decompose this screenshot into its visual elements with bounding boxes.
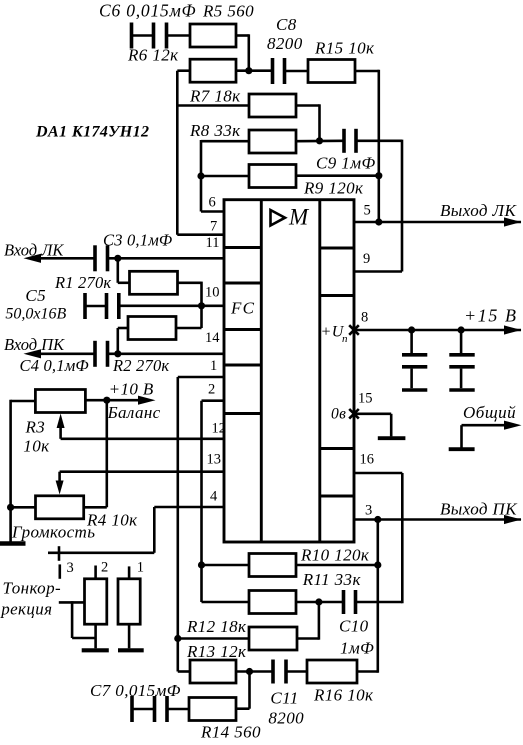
wire (178, 281, 202, 284)
wire switch arm (59, 601, 85, 604)
junction (246, 668, 253, 675)
capacitor C8 (271, 58, 275, 84)
op-amp U1 right cell divider (320, 247, 354, 250)
svg-text:R11 33к: R11 33к (302, 570, 362, 589)
arrow Вход ЛК (24, 254, 42, 263)
svg-text:n: n (342, 333, 348, 345)
svg-text:9: 9 (363, 251, 370, 267)
svg-text:11: 11 (206, 235, 220, 251)
wire (248, 672, 251, 709)
wire (132, 34, 153, 37)
junction (375, 172, 382, 179)
wire R3 right (85, 399, 106, 402)
wire (121, 304, 202, 307)
ground bar (118, 648, 144, 652)
wire pin16 to IC (354, 472, 402, 475)
junction (114, 255, 121, 262)
resistor R12 (249, 627, 297, 650)
wire (357, 601, 402, 604)
svg-text:8200: 8200 (267, 34, 303, 53)
resistor tone network vertical 1 (118, 579, 140, 624)
potentiometer R4 (36, 496, 84, 519)
svg-text:R1 270к: R1 270к (54, 273, 111, 292)
svg-text:6: 6 (209, 195, 216, 211)
capacitor C11 (271, 660, 275, 684)
svg-text:R14 560: R14 560 (200, 723, 261, 742)
capacitor C1 bottom terminal bar (402, 388, 427, 392)
arrow Вход ПК (24, 349, 42, 358)
wire (153, 507, 156, 553)
wire pin1 net vertical (177, 377, 180, 672)
svg-text:Выход ЛК: Выход ЛК (440, 201, 517, 220)
junction (374, 516, 381, 523)
junction (408, 326, 415, 333)
svg-text:FC: FC (230, 299, 255, 318)
op-amp U1 left cell divider (224, 412, 261, 415)
svg-text:2: 2 (208, 382, 215, 398)
arrow Баланс +10В (107, 399, 140, 402)
capacitor C10 (342, 590, 346, 614)
wire (168, 34, 190, 37)
wire R13 left (178, 670, 190, 673)
svg-text:С5: С5 (25, 286, 46, 305)
wire (117, 328, 120, 354)
capacitor C9 (342, 129, 346, 153)
wire pin13 from R4 wiper (60, 470, 225, 473)
switch contact 2 stub (94, 566, 97, 579)
svg-text:Громкость: Громкость (11, 523, 95, 542)
op-amp U1 right cell divider (320, 495, 354, 498)
svg-text:R6 12к: R6 12к (127, 46, 179, 65)
svg-text:С3 0,1мФ: С3 0,1мФ (103, 231, 172, 250)
svg-text:С6 0,015мФ: С6 0,015мФ (99, 1, 196, 21)
wire R8 left (201, 140, 249, 143)
capacitor C5 (105, 293, 109, 319)
op-amp U1 right cell divider (320, 447, 354, 450)
wire pin4 to IC (154, 506, 225, 509)
resistor R6 (190, 59, 236, 82)
capacitor C2 filter (460, 330, 463, 353)
wire (128, 624, 131, 648)
junction (198, 561, 205, 568)
svg-text:1: 1 (137, 560, 144, 576)
capacitor C7 (153, 696, 157, 722)
wire R12 right (297, 637, 319, 640)
op-amp U1 inner column line right (318, 200, 321, 542)
svg-text:R8 33к: R8 33к (189, 121, 241, 140)
svg-text:Общий: Общий (463, 403, 516, 422)
terminal Общий (449, 447, 475, 451)
wire (169, 708, 190, 711)
wire (236, 34, 249, 37)
wire (132, 708, 153, 711)
svg-text:рекция: рекция (0, 600, 52, 619)
wire (85, 305, 105, 308)
svg-text:R16 10к: R16 10к (313, 686, 374, 705)
svg-text:Тонкор-: Тонкор- (3, 579, 62, 598)
svg-text:14: 14 (205, 330, 220, 346)
capacitor C6 open-end terminal bar (130, 23, 134, 49)
svg-text:50,0х16В: 50,0х16В (5, 306, 66, 323)
switch contact 3 upper tick (58, 546, 61, 561)
svg-text:M: M (288, 205, 310, 230)
arrow Общий (504, 421, 522, 430)
wire pin10 to IC (202, 304, 226, 307)
resistor R2 (128, 317, 176, 340)
svg-text:R5 560: R5 560 (202, 2, 254, 21)
wire (296, 104, 320, 107)
capacitor C3 (93, 245, 97, 271)
wire pin2 to IC (202, 399, 226, 402)
svg-text:3: 3 (67, 560, 74, 576)
wire R11 left (202, 601, 250, 604)
svg-text:+15 В: +15 В (464, 306, 518, 326)
svg-text:5: 5 (364, 203, 371, 219)
svg-text:1: 1 (210, 358, 217, 374)
svg-text:R3: R3 (25, 418, 46, 437)
potentiometer R3 (35, 390, 85, 413)
svg-text:Баланс: Баланс (107, 403, 161, 422)
ground bar pin15 (378, 436, 406, 440)
resistor R8 (249, 130, 296, 153)
svg-text:R2 270к: R2 270к (112, 356, 169, 375)
wire R12 left (178, 637, 249, 640)
capacitor C6 (152, 23, 156, 49)
svg-text:15: 15 (358, 391, 373, 407)
junction (197, 172, 204, 179)
wire pin1 to IC (178, 376, 225, 379)
svg-text:4: 4 (210, 489, 218, 505)
capacitor C4 (93, 341, 97, 367)
potentiometer R4 wiper arrow (58, 472, 61, 483)
ground bar (82, 648, 109, 652)
arrow Выход ЛК (504, 217, 522, 226)
resistor tone network vertical 2 (85, 579, 107, 624)
svg-text:2: 2 (101, 560, 108, 576)
junction (245, 67, 252, 74)
resistor R5 (190, 24, 236, 47)
wire (200, 140, 203, 212)
junction (458, 326, 465, 333)
potentiometer R3 wiper arrow (57, 414, 65, 429)
svg-text:13: 13 (207, 452, 222, 468)
svg-text:10к: 10к (23, 437, 50, 456)
junction (114, 350, 121, 357)
resistor R16 (307, 660, 357, 683)
wire pin3 output (354, 518, 521, 521)
arrow +15 В (504, 325, 522, 334)
wire pin6 to IC (201, 210, 225, 213)
wire (94, 624, 97, 648)
wire (358, 140, 403, 143)
wire R10 left (202, 564, 250, 567)
wire pin2 net vertical (200, 401, 203, 602)
svg-text:DA1 К174УН12: DA1 К174УН12 (35, 124, 149, 141)
arrow Выход ПК (504, 515, 522, 524)
op-amp amplifier triangle symbol (271, 210, 286, 226)
svg-text:10: 10 (205, 285, 220, 301)
wire (117, 258, 120, 283)
op-amp U1 inner column line left (260, 200, 263, 542)
junction (7, 504, 14, 511)
svg-text:8: 8 (361, 310, 368, 326)
resistor R14 (189, 698, 236, 721)
resistor R15 (308, 60, 355, 83)
wire (296, 140, 343, 143)
capacitor C2 bottom terminal bar (449, 388, 474, 392)
wire (177, 104, 249, 107)
wire R4 right (84, 506, 107, 509)
svg-text:+10 В: +10 В (109, 380, 154, 399)
svg-text:С8: С8 (276, 15, 297, 34)
svg-text:12: 12 (212, 421, 227, 437)
op-amp U1 left cell divider (224, 282, 261, 285)
svg-text:С4 0,1мФ: С4 0,1мФ (20, 356, 89, 375)
op-amp U1 left cell divider (224, 246, 261, 249)
wire +15V rail (354, 329, 521, 332)
switch contact 3 lower tick (58, 564, 61, 578)
wire R9 right (296, 174, 379, 177)
ground bar Громкость net (0, 541, 26, 546)
wire R4 left (11, 506, 36, 509)
svg-text:R15 10к: R15 10к (314, 39, 375, 58)
capacitor C1 filter (410, 330, 413, 353)
svg-text:R13 12к: R13 12к (186, 642, 247, 661)
op-amp U1 left cell divider (224, 328, 261, 331)
switch contact 1 stub (128, 566, 131, 578)
resistor R1 (130, 271, 178, 294)
svg-text:1мФ: 1мФ (340, 639, 374, 658)
pin 15 no-connect cross (349, 409, 359, 419)
junction (316, 137, 323, 144)
op-amp U1 left cell divider (224, 364, 261, 367)
junction (375, 218, 382, 225)
wire R13 right (236, 670, 272, 673)
wire R2 right (176, 327, 202, 330)
svg-text:С10: С10 (339, 617, 369, 636)
wire (236, 69, 272, 72)
svg-text:С9 1мФ: С9 1мФ (316, 154, 376, 173)
resistor R10 (249, 554, 296, 577)
wire pin9 to IC (354, 270, 402, 273)
svg-text:8200: 8200 (268, 709, 304, 728)
wire (177, 69, 190, 72)
junction (315, 598, 322, 605)
wire (11, 400, 36, 403)
wire (106, 400, 109, 507)
svg-text:R9 120к: R9 120к (303, 179, 364, 198)
resistor R11 (249, 591, 296, 614)
svg-text:3: 3 (365, 503, 372, 519)
junction (103, 397, 110, 404)
wire R9 left (201, 175, 249, 178)
junction (374, 561, 381, 568)
wire (40, 352, 94, 355)
pin 8 no-connect cross (349, 325, 359, 335)
wire pin11 to IC (109, 257, 225, 260)
junction (198, 302, 205, 309)
resistor R7 (249, 94, 296, 117)
wire pin12 from R3 wiper (61, 437, 225, 440)
wire pin14 to IC (109, 352, 225, 355)
svg-text:16: 16 (360, 452, 375, 468)
wire (40, 257, 94, 260)
capacitor C7 open-end terminal bar (130, 696, 134, 722)
svg-text:R7 18к: R7 18к (189, 87, 241, 106)
wire R16 right (357, 670, 378, 673)
svg-text:0в: 0в (331, 406, 346, 423)
svg-text:R12 18к: R12 18к (186, 617, 247, 636)
wire R10 right (296, 564, 378, 567)
wire (288, 670, 308, 673)
capacitor C5 open-end terminal bar (83, 293, 87, 319)
wire R11 right (296, 601, 343, 604)
wire (286, 70, 308, 73)
op-amp U1 body outline (224, 200, 354, 542)
wire (355, 70, 379, 73)
junction (174, 635, 181, 642)
wire pin7 to IC (177, 233, 225, 236)
svg-text:7: 7 (210, 219, 217, 235)
svg-text:С11: С11 (270, 689, 298, 708)
wire pin15 stub (354, 412, 391, 415)
resistor R9 (249, 165, 296, 188)
svg-text:R10 120к: R10 120к (300, 546, 370, 565)
wire pin5 output (354, 221, 521, 224)
op-amp U1 right cell divider (320, 294, 354, 297)
resistor R13 (190, 660, 236, 683)
